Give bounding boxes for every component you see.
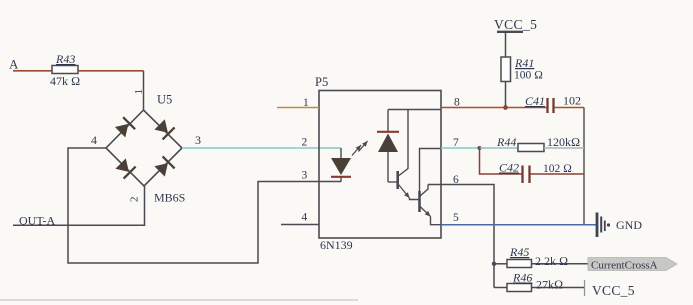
capacitor C42 xyxy=(523,166,530,184)
svg-text:2.2k Ω: 2.2k Ω xyxy=(535,254,568,268)
transistor Q2 (output) xyxy=(420,149,442,225)
svg-text:P5: P5 xyxy=(315,75,328,89)
wire bridge pin4 loop to P5 pin3 xyxy=(68,148,341,263)
svg-text:3: 3 xyxy=(195,133,201,147)
wire junction down to C42 xyxy=(480,148,522,174)
svg-text:R41: R41 xyxy=(514,56,534,70)
op-to P5 box xyxy=(319,91,441,239)
svg-text:MB6S: MB6S xyxy=(154,191,185,205)
resistor R41 xyxy=(501,57,511,82)
wire vertical into bridge top xyxy=(143,71,145,110)
wire C41 to rail xyxy=(555,107,585,109)
svg-text:102 Ω: 102 Ω xyxy=(543,163,572,175)
wire R43 to bridge pin1 xyxy=(78,70,144,72)
svg-text:VCC_5: VCC_5 xyxy=(494,17,537,32)
resistor R46 xyxy=(494,284,584,292)
wire junction to R44 xyxy=(480,147,519,149)
resistor R45 xyxy=(494,260,588,268)
diode D-lower-right (points to right vertex) xyxy=(154,156,174,176)
svg-text:VCC_5: VCC_5 xyxy=(592,283,635,298)
wire R44 to rail xyxy=(544,147,584,149)
svg-text:R46: R46 xyxy=(512,271,532,285)
transistor Q1 (input) xyxy=(398,110,420,200)
pin 4 stub wire xyxy=(281,224,319,226)
junction R45 xyxy=(492,262,496,266)
wire OUT-A to bridge pin2 xyxy=(13,186,145,225)
right vertical rail xyxy=(583,108,585,225)
svg-text:CurrentCrossA: CurrentCrossA xyxy=(591,260,658,272)
power VCC_5 bottom xyxy=(585,280,635,298)
LED of optocoupler xyxy=(331,148,351,182)
wire A to R43 xyxy=(13,70,52,72)
svg-text:47k Ω: 47k Ω xyxy=(50,74,80,88)
svg-text:1: 1 xyxy=(133,89,145,95)
capacitor C41 xyxy=(548,98,554,113)
resistor R43 xyxy=(52,66,78,74)
wire C42 to rail xyxy=(531,173,585,175)
diode D-upper-left (points to top vertex) xyxy=(115,117,135,137)
svg-text:5: 5 xyxy=(453,212,459,224)
svg-text:2: 2 xyxy=(129,197,141,203)
svg-text:27kΩ: 27kΩ xyxy=(536,278,563,292)
junction on pin8 net xyxy=(503,105,508,110)
svg-text:C42: C42 xyxy=(499,161,519,175)
resistor R44 xyxy=(518,144,544,152)
diode D-lower-left (points to bottom vertex) xyxy=(115,158,135,178)
svg-text:1: 1 xyxy=(303,97,309,109)
svg-text:100 Ω: 100 Ω xyxy=(514,70,543,82)
svg-text:4: 4 xyxy=(302,212,308,224)
svg-text:A: A xyxy=(9,57,19,72)
junction pin7 xyxy=(478,146,482,150)
net label CurrentCrossA xyxy=(588,258,677,272)
svg-text:3: 3 xyxy=(302,170,308,182)
svg-text:102: 102 xyxy=(563,94,581,108)
svg-text:GND: GND xyxy=(616,218,642,232)
wire bridge pin3 to P5 pin2 xyxy=(182,147,341,149)
photodiode xyxy=(377,110,399,183)
light emission arrows xyxy=(352,141,368,156)
wire pin7 xyxy=(441,147,480,149)
svg-text:6N139: 6N139 xyxy=(320,238,353,252)
pin 1 stub wire xyxy=(277,107,319,109)
svg-text:R44: R44 xyxy=(496,135,516,149)
svg-text:U5: U5 xyxy=(157,93,172,107)
svg-text:2: 2 xyxy=(302,137,308,149)
bridge rectifier U5 outline xyxy=(106,110,182,186)
internal VCC rail to pin8 xyxy=(388,109,441,111)
wire pin5 to GND xyxy=(441,224,596,226)
(scan streak, decorative) xyxy=(0,299,358,301)
wire pin6 down to divider xyxy=(428,185,494,288)
power VCC_5 top xyxy=(494,17,537,57)
wire R41 down to pin8 net xyxy=(505,82,507,108)
svg-text:120kΩ: 120kΩ xyxy=(547,135,580,149)
svg-text:R45: R45 xyxy=(509,245,529,259)
ground GND symbol xyxy=(597,213,610,238)
wire pin8 to C41 xyxy=(441,107,547,109)
svg-text:C41: C41 xyxy=(525,94,545,108)
svg-text:4: 4 xyxy=(91,133,97,147)
diode D-upper-right (points to right vertex) xyxy=(154,119,174,139)
svg-text:R43: R43 xyxy=(55,52,75,66)
